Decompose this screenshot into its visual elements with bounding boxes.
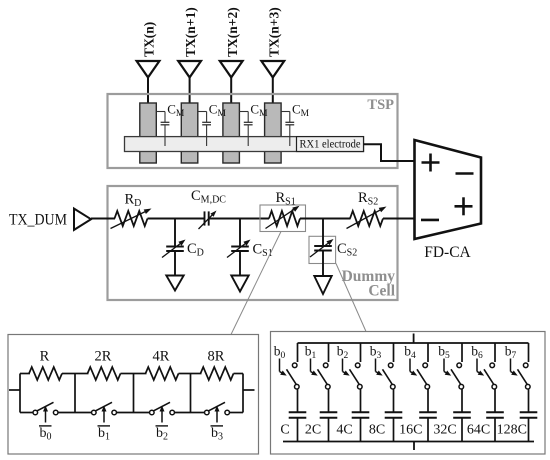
switch b4: [410, 343, 430, 389]
callout line CS2 to cap-bank box: [336, 264, 366, 332]
callout line RS1 to R-ladder box: [231, 232, 281, 335]
switch b1 bar: [75, 402, 134, 422]
svg-text:TX_DUM: TX_DUM: [9, 212, 67, 229]
ground under CD: [166, 276, 183, 291]
switch b7: [511, 343, 531, 389]
RX1 electrode label box: [297, 137, 364, 152]
label b2 bar: [156, 426, 169, 443]
switch b0: [280, 343, 300, 389]
svg-text:128C: 128C: [497, 423, 527, 438]
capacitor 4C: [336, 389, 369, 442]
svg-text:Cell: Cell: [368, 283, 395, 300]
antenna TX(n+1): [178, 7, 201, 104]
resistor 4R: [146, 349, 179, 381]
junction rail: [19, 374, 21, 413]
buffer driver: [74, 209, 91, 230]
wire CMDC to RS1: [209, 218, 269, 220]
wire: [134, 373, 147, 375]
resistor 2R: [88, 349, 121, 381]
resistor RD: [111, 192, 152, 229]
svg-text:C: C: [280, 423, 289, 438]
resistor RS2: [347, 190, 387, 229]
wire: [179, 373, 191, 375]
op-amp FD-CA: [415, 140, 482, 261]
dummy cell box: [108, 186, 398, 300]
svg-text:64C: 64C: [467, 423, 490, 438]
wire: [75, 373, 89, 375]
svg-text:TX(n+1): TX(n+1): [183, 7, 198, 57]
wire: [62, 373, 75, 375]
capacitor 16C: [399, 389, 437, 442]
resistor RS1: [260, 190, 306, 232]
wire RD to CMDC: [148, 218, 205, 220]
capacitor 2C: [305, 389, 337, 442]
TX electrode 4: [265, 103, 282, 163]
wire: [191, 373, 202, 375]
TSP panel box: [108, 94, 398, 168]
wire RS2 to FD-CA - input: [383, 218, 415, 220]
right terminal: [243, 389, 255, 391]
switch b3: [376, 343, 396, 389]
capacitor 64C: [467, 389, 504, 442]
label b0 bar: [39, 426, 52, 443]
capacitor CM4: [281, 102, 310, 147]
TX electrode 3: [223, 103, 240, 163]
wire: [20, 373, 30, 375]
switch b2 bar: [134, 402, 191, 422]
svg-text:TX(n+2): TX(n+2): [225, 7, 240, 57]
antenna TX(n): [137, 22, 160, 104]
resistor R: [29, 349, 62, 381]
switch b3 bar: [191, 402, 244, 422]
top rail: [298, 342, 529, 344]
bottom rail: [283, 441, 534, 443]
left terminal: [9, 389, 20, 391]
svg-text:RX1 electrode: RX1 electrode: [300, 139, 361, 151]
junction rail: [242, 374, 244, 413]
switch b1: [311, 343, 331, 389]
svg-text:TX(n): TX(n): [142, 22, 157, 57]
ground under CS2: [314, 276, 331, 294]
antenna TX(n+2): [220, 7, 243, 104]
svg-text:32C: 32C: [433, 423, 456, 438]
label b1 bar: [98, 426, 111, 443]
switch b5: [444, 343, 464, 389]
wire buffer to RD: [91, 218, 115, 220]
svg-text:8R: 8R: [208, 349, 225, 365]
capacitor CM1: [156, 102, 185, 147]
capacitor CMDC: [191, 188, 226, 229]
TX electrode 2: [181, 103, 198, 163]
switch b2: [343, 343, 363, 389]
label b3 bar: [211, 426, 224, 443]
ground under CS1: [231, 276, 248, 292]
svg-text:16C: 16C: [399, 423, 422, 438]
junction rail: [190, 374, 192, 413]
wire: [234, 373, 244, 375]
switch b6: [477, 343, 497, 389]
capacitor CS1: [227, 219, 273, 276]
junction rail: [74, 374, 76, 413]
cap-bank detail box: [271, 332, 546, 455]
top terminal: [413, 334, 415, 344]
capacitor 128C: [497, 389, 538, 442]
RX1 electrode bar: [125, 137, 364, 152]
switch b0 bar: [20, 402, 75, 422]
wire RX1 to FD-CA + input: [364, 144, 415, 161]
svg-text:2C: 2C: [305, 423, 321, 438]
resistor 8R: [201, 349, 234, 381]
svg-text:FD-CA: FD-CA: [424, 244, 471, 261]
R-ladder detail box: [8, 335, 259, 455]
capacitor 32C: [433, 389, 470, 442]
svg-text:TX(n+3): TX(n+3): [266, 7, 281, 57]
capacitor C: [280, 389, 306, 442]
capacitor CD: [162, 219, 204, 276]
svg-text:8C: 8C: [369, 423, 385, 438]
svg-text:4C: 4C: [336, 423, 352, 438]
svg-text:R: R: [40, 349, 50, 365]
svg-text:4R: 4R: [153, 349, 170, 365]
capacitor 8C: [369, 389, 402, 442]
antenna TX(n+3): [261, 7, 284, 104]
TX electrode 1: [140, 103, 157, 163]
svg-text:TSP: TSP: [367, 97, 394, 113]
capacitor CS2: [309, 219, 357, 277]
capacitor CM2: [198, 102, 227, 147]
capacitor CM3: [239, 102, 268, 147]
junction rail: [133, 374, 135, 413]
bottom terminal: [413, 442, 415, 451]
svg-text:2R: 2R: [95, 349, 112, 365]
wire RS1 to RS2: [300, 218, 351, 220]
wire: [121, 373, 134, 375]
